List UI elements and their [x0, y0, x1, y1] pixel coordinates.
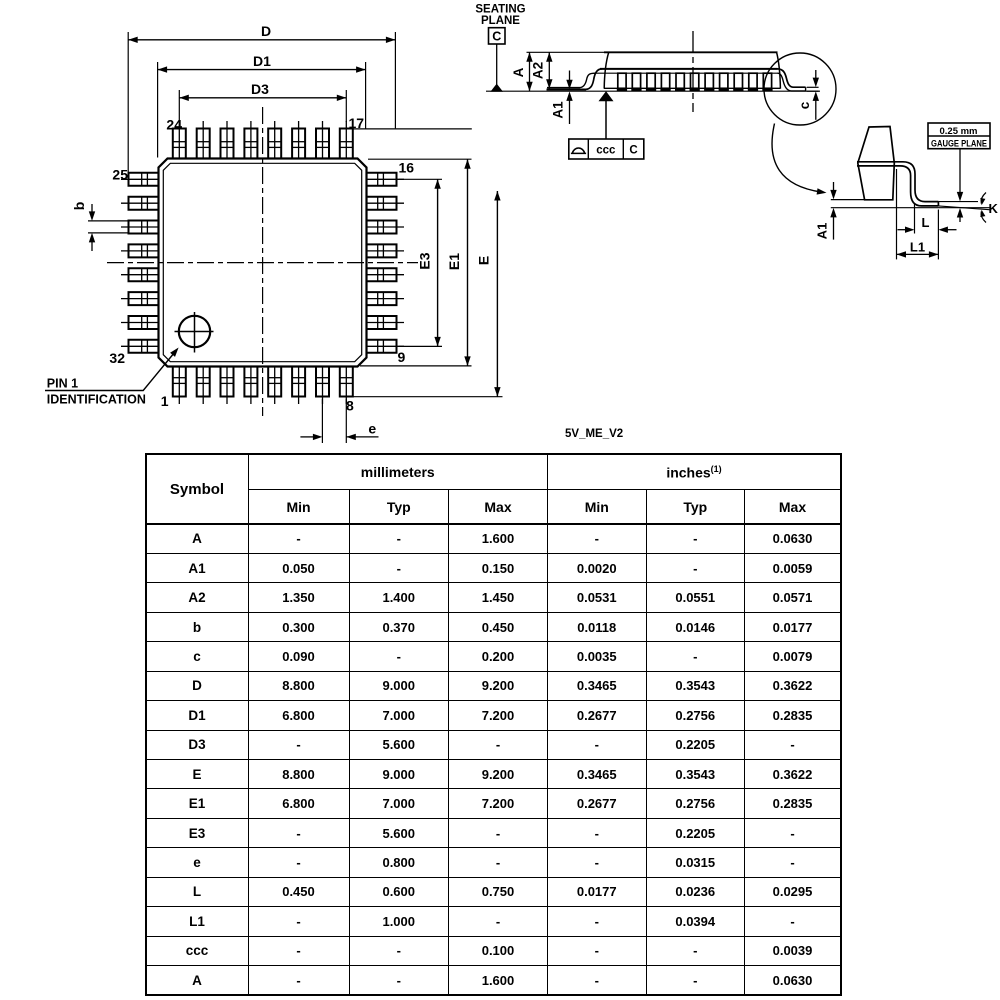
top-side pin 19 (top view) [292, 129, 305, 160]
D3 left extension line [178, 90, 180, 122]
left-side pin 29 (top view) [129, 268, 160, 281]
left-side pin 28 (top view) [129, 244, 160, 257]
bottom-side pin 8 (top view) [340, 366, 353, 397]
lead detail: lead outer profile [857, 162, 938, 202]
svg-text:c: c [797, 101, 812, 109]
left-side pin 31 (top view) [129, 316, 160, 329]
side view package body top line [527, 51, 606, 53]
pin 1 circle vertical cross line [194, 312, 196, 353]
vertical center line (top view) [262, 107, 264, 416]
side view lead stub 4 [661, 73, 669, 88]
gauge plane leader line [959, 149, 961, 194]
side view body right end arc [777, 52, 781, 88]
bottom-side pin 3 (top view) [221, 366, 234, 397]
svg-text:32: 32 [109, 350, 125, 366]
side view lead stub 2 [632, 73, 640, 88]
left-side pin 25 (top view) [129, 173, 160, 186]
D left extension line [127, 32, 129, 174]
svg-text:A: A [511, 67, 526, 77]
drawing reference code [565, 428, 623, 440]
ccc feature control frame [569, 139, 644, 159]
side view lead stub 11 [763, 73, 771, 88]
top-side pin 17 (top view) [340, 129, 353, 160]
left-side pin 30 (top view) [129, 292, 160, 305]
svg-text:A2: A2 [531, 62, 546, 79]
dimension A2 [548, 52, 550, 88]
dimension E [496, 191, 498, 397]
curved leader arrow to lead detail [772, 124, 821, 193]
svg-text:e: e [368, 421, 376, 437]
side view lead stub 10 [749, 73, 757, 88]
E1 bottom extension line [360, 365, 472, 367]
svg-text:E3: E3 [417, 252, 433, 269]
svg-text:L1: L1 [910, 240, 925, 255]
left-side pin 26 (top view) [129, 197, 160, 210]
D1 right extension line [365, 62, 367, 129]
right-side pin 9 (top view) [366, 340, 397, 353]
dimension e [321, 399, 323, 443]
E1 top extension line [368, 158, 472, 160]
top-side pin 22 (top view) [221, 129, 234, 160]
svg-text:b: b [71, 202, 87, 211]
lead detail: gauge plane line [831, 199, 866, 201]
D1 left extension line [157, 62, 159, 158]
side view left lead curve [586, 69, 602, 90]
side view lead stub 7 [705, 73, 713, 88]
svg-text:D: D [261, 23, 271, 39]
svg-text:E1: E1 [446, 253, 462, 270]
lead detail: lead tip [937, 202, 939, 206]
lead detail: body end section [858, 127, 895, 200]
svg-text:24: 24 [166, 117, 182, 133]
E bottom extension line [351, 396, 503, 398]
LQFP32 top view package body outline [159, 159, 367, 367]
D right extension line [394, 32, 396, 128]
dimension D [128, 39, 395, 41]
pin 1 identification leader arrow [45, 353, 175, 391]
dimension K [981, 193, 986, 204]
svg-text:PIN 1: PIN 1 [47, 377, 78, 391]
dimension A [529, 52, 531, 91]
dimension L [914, 204, 916, 234]
right-side pin 11 (top view) [366, 292, 397, 305]
right-side pin 16 (top view) [366, 173, 397, 186]
svg-text:E: E [476, 256, 492, 265]
horizontal center line (top view) [107, 262, 418, 264]
dimension L1 [896, 169, 898, 259]
ccc leader line [605, 101, 607, 140]
D3 right extension line [345, 90, 347, 122]
bottom-side pin 7 (top view) [316, 366, 329, 397]
pin 1 circle horizontal cross line [175, 331, 214, 333]
top-side pin 24 (top view) [173, 129, 186, 160]
dimension E1 [467, 159, 469, 366]
svg-text:0.25 mm: 0.25 mm [939, 126, 977, 137]
side view lead shoulder lines [600, 68, 778, 70]
dimensions table [145, 453, 843, 996]
side view center line [692, 31, 694, 112]
0.25 mm GAUGE PLANE box [928, 123, 990, 149]
dimension A1 (lead detail) [833, 182, 835, 192]
left-side pin 27 (top view) [129, 221, 160, 234]
right-side pin 13 (top view) [366, 244, 397, 257]
svg-text:GAUGE PLANE: GAUGE PLANE [931, 139, 987, 150]
top-side pin 20 (top view) [268, 129, 281, 160]
right lead foot tip [805, 87, 807, 91]
right-side pin 10 (top view) [366, 316, 397, 329]
side view lead stub 8 [720, 73, 728, 88]
dimension E3 [437, 179, 439, 346]
right-side pin 12 (top view) [366, 268, 397, 281]
top-side pin 21 (top view) [244, 129, 257, 160]
seating plane line (side view) [486, 90, 820, 92]
E3 bottom extension line [399, 345, 442, 347]
right-side pin 14 (top view) [366, 221, 397, 234]
side view lead stub 6 [691, 73, 699, 88]
svg-text:C: C [492, 30, 501, 44]
side view lead stub 9 [734, 73, 742, 88]
svg-text:K: K [989, 201, 999, 216]
svg-text:A1: A1 [815, 223, 830, 240]
seating plane datum C box [489, 28, 506, 44]
top view body inner edge line [163, 163, 361, 361]
right-side pin 15 (top view) [366, 197, 397, 210]
bottom-side pin 5 (top view) [268, 366, 281, 397]
side view body left end arc [604, 52, 609, 88]
side view right lead curve [778, 69, 806, 87]
flatness symbol [571, 148, 586, 153]
lead detail: lead inner profile [857, 166, 938, 206]
E3 top extension line [399, 178, 442, 180]
svg-text:16: 16 [399, 160, 415, 176]
ccc datum triangle [600, 92, 613, 101]
lead detail: seating plane line [831, 207, 990, 209]
svg-text:IDENTIFICATION: IDENTIFICATION [47, 393, 146, 407]
dimension b [88, 220, 128, 222]
side view lead stub 3 [647, 73, 655, 88]
svg-text:L: L [922, 215, 930, 230]
datum C filled triangle [491, 84, 502, 91]
bottom-side pin 4 (top view) [244, 366, 257, 397]
svg-text:D1: D1 [253, 53, 271, 69]
left-side pin 32 (top view) [129, 340, 160, 353]
bottom-side pin 1 (top view) [173, 366, 186, 397]
svg-text:9: 9 [398, 349, 406, 365]
pin 1 identification circle [179, 316, 210, 347]
svg-text:SEATING: SEATING [475, 4, 525, 16]
lead detail: K sloped foot line [938, 206, 991, 210]
side view left lead foot [547, 87, 580, 89]
svg-text:D3: D3 [251, 81, 269, 97]
svg-text:C: C [629, 145, 637, 157]
top-side pin 23 (top view) [197, 129, 210, 160]
svg-text:ccc: ccc [596, 145, 616, 157]
gauge-to-seating arrow [959, 216, 961, 222]
svg-text:A1: A1 [551, 101, 566, 119]
side view lead stub 1 [618, 73, 626, 88]
side view lead stub 5 [676, 73, 684, 88]
svg-text:25: 25 [112, 167, 128, 183]
bottom-side pin 2 (top view) [197, 366, 210, 397]
bottom-side pin 6 (top view) [292, 366, 305, 397]
dimension D1 [158, 69, 366, 71]
dimension c [807, 86, 819, 88]
top-side pin 18 (top view) [316, 129, 329, 160]
svg-text:8: 8 [346, 398, 354, 414]
datum C leader line [496, 44, 498, 85]
svg-text:PLANE: PLANE [481, 15, 520, 27]
dimension D3 [179, 97, 346, 99]
lead detail circle [764, 53, 836, 125]
side view body parting line [604, 87, 780, 89]
dimension A1 (side view) [569, 71, 571, 82]
svg-text:1: 1 [161, 393, 169, 409]
E top extension line [353, 128, 472, 130]
